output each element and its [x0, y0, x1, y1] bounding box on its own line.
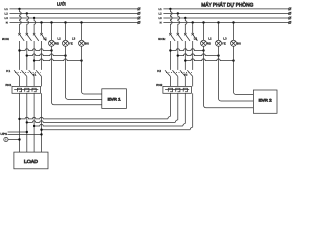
svg-text:RD: RD [207, 41, 211, 45]
wire N drop to MCCB2 [192, 23, 194, 34]
svg-text:N: N [6, 22, 8, 25]
junction dot tie L2 [26, 121, 28, 123]
wire L3 drop to MCCB1 [34, 18, 36, 33]
node label L1 left bus [5, 8, 9, 11]
label L2 lamp left [57, 37, 61, 41]
title MAY PHAT DU PHONG (standby generator) [201, 1, 253, 8]
junction dot L2 tap left [26, 12, 28, 14]
node label N left bus [6, 22, 8, 25]
svg-text:YE: YE [222, 41, 226, 45]
wire L2 drop to MCCB2 [178, 13, 180, 33]
svg-text:L3: L3 [5, 17, 9, 20]
wire tie line N from generator [42, 127, 193, 130]
wire UPS line2 to N feeder [8, 133, 42, 135]
label RD lamp color right [207, 41, 211, 45]
label L3 lamp left [72, 37, 76, 41]
wire load feeder 1 [19, 93, 21, 152]
terminal L3 left bus end [137, 17, 140, 20]
terminal L1 left bus end [137, 7, 140, 10]
label BU lamp color right [237, 41, 241, 45]
wire N bus to lamp3 left [81, 23, 83, 41]
wire N bus to lamp1 right [203, 23, 205, 41]
node label N right bus [160, 22, 162, 25]
load box LOAD [14, 152, 48, 169]
wire K1 pole2 to RN [26, 76, 28, 86]
terminal L3 right bus end [288, 17, 291, 20]
label L2 lamp right [208, 37, 212, 41]
wire bus N left [10, 22, 138, 24]
contactor K1 [6, 69, 41, 77]
wire bus L1 right [163, 8, 288, 10]
wire phase tap L3 left to lamp [34, 59, 81, 61]
wire phase tap L1 left to lamp [20, 49, 52, 51]
junction dot lamp1 right on N bus [202, 21, 204, 23]
junction dot lamp3 left bottom [80, 59, 82, 61]
wire N bus to lamp3 right [233, 23, 235, 41]
svg-text:LOAD: LOAD [24, 159, 39, 164]
junction dot tap L3 left [33, 59, 35, 61]
svg-text:N: N [160, 22, 162, 25]
wire MCCB1 pole3 to K1 [33, 41, 35, 70]
wire load feeder 3 [33, 93, 35, 152]
thermal overload relay RN2 [156, 83, 191, 94]
wire bus L3 left [10, 17, 138, 19]
junction dot tap L3 right [184, 59, 186, 61]
label L3 lamp right [223, 37, 227, 41]
svg-text:K2: K2 [157, 69, 161, 73]
wire generator feeder 3 down [184, 93, 186, 123]
junction dot lamp1 right bottom [202, 49, 204, 51]
svg-text:L2: L2 [208, 37, 212, 41]
thermal overload relay RN1 [5, 83, 40, 94]
svg-text:BU: BU [85, 41, 89, 45]
svg-text:LƯỚI: LƯỚI [57, 2, 66, 7]
wire lamp1 left down [51, 46, 53, 50]
svg-text:EVR 1: EVR 1 [108, 97, 121, 101]
terminal L2 right bus end [288, 12, 291, 15]
junction dot N tap right [192, 21, 194, 23]
wire generator feeder 1 down [169, 93, 171, 116]
svg-text:L1: L1 [43, 37, 47, 41]
junction dot L1 tap right [169, 8, 171, 10]
indicator lamp BU left [79, 40, 85, 46]
meter V [4, 137, 8, 141]
wire N drop to MCCB1 [41, 23, 43, 34]
junction dot meter L1 [18, 138, 20, 140]
wire generator feeder 2 down [177, 93, 179, 120]
junction dot tap L1 left [18, 49, 20, 51]
junction dot UPS L2 [26, 131, 28, 133]
node label L3 left bus [5, 17, 9, 20]
wire tie line L2 from generator [27, 120, 178, 123]
wire N bus to lamp2 right [218, 23, 220, 41]
node label L3 right bus [158, 17, 162, 20]
node label L2 right bus [158, 13, 162, 16]
terminal L2 left bus end [137, 12, 140, 15]
circuit breaker MCCB2 [158, 33, 197, 41]
svg-text:L3: L3 [158, 17, 162, 20]
title LUOI (grid) [57, 2, 66, 7]
wire MCCB1 pole1 to K1 [19, 41, 21, 70]
wire K1 pole1 to RN [19, 76, 21, 86]
wire bus L2 right [163, 12, 288, 14]
junction dot lamp2 right on N bus [217, 21, 219, 23]
svg-text:L1: L1 [158, 8, 162, 11]
label L1 lamp right [194, 37, 198, 41]
wire tie line L3 from generator [34, 124, 185, 127]
wire MCCB2 pole2 to K2 [177, 41, 179, 70]
wire lamp2 left to EVR [66, 56, 102, 100]
voltage relay EVR1 [102, 89, 127, 109]
junction dot UPS N [40, 133, 42, 135]
svg-text:RD: RD [55, 41, 59, 45]
wire meter to L1 feeder [8, 139, 20, 141]
junction dot L3 tap left [33, 17, 35, 19]
wire phase tap L2 left to lamp [27, 54, 66, 56]
indicator lamp YE right [216, 40, 222, 46]
wire N bus to lamp1 left [51, 23, 53, 41]
wire lamp3 left down [81, 46, 83, 60]
indicator lamp RD left [49, 40, 55, 46]
node label L2 left bus [5, 13, 9, 16]
wire phase tap L3 right to lamp [185, 59, 233, 61]
junction dot tap L2 right [177, 54, 179, 56]
indicator lamp BU right [231, 40, 237, 46]
junction dot lamp2 left bottom [64, 54, 66, 56]
wire L2 drop to MCCB1 [27, 13, 29, 33]
wire L1 drop to MCCB2 [170, 9, 172, 33]
junction dot lamp2 right bottom [217, 54, 219, 56]
svg-text:L2: L2 [5, 13, 9, 16]
wire bus L2 left [10, 12, 138, 14]
svg-text:UPS: UPS [0, 132, 7, 136]
wire lamp3 right down [233, 46, 235, 60]
wire lamp1 right down [203, 46, 205, 50]
svg-text:L2: L2 [158, 13, 162, 16]
wire MCCB1 pole4 to K1 [41, 41, 43, 70]
svg-text:L2: L2 [57, 37, 61, 41]
wire bus N right [163, 22, 288, 24]
junction dot lamp1 left on N bus [50, 21, 52, 23]
wire MCCB1 pole2 to K1 [26, 41, 28, 70]
label RD lamp color left [55, 41, 59, 45]
svg-text:L3: L3 [223, 37, 227, 41]
circuit breaker MCCB1 [2, 33, 46, 41]
wire load feeder 4 [41, 93, 43, 152]
junction dot L1 tap left [18, 8, 20, 10]
wire MCCB2 pole1 to K2 [169, 41, 171, 70]
wire phase tap L1 right to lamp [170, 49, 203, 51]
wire K2 pole1 to RN [169, 76, 171, 86]
node label L1 right bus [158, 8, 162, 11]
wire K2 pole4 to RN [192, 76, 194, 86]
terminal L1 right bus end [288, 7, 291, 10]
wire phase tap L2 right to lamp [178, 54, 219, 56]
junction dot lamp1 left bottom [50, 49, 52, 51]
label UPS [0, 132, 7, 136]
voltage relay EVR2 [253, 90, 277, 113]
svg-text:BU: BU [237, 41, 241, 45]
label L1 lamp left [43, 37, 47, 41]
svg-text:L1: L1 [5, 8, 9, 11]
wire L1 drop to MCCB1 [20, 9, 22, 33]
junction dot tie N [40, 129, 42, 131]
wire N bus to lamp2 left [65, 23, 67, 41]
indicator lamp RD right [201, 40, 207, 46]
svg-text:EVR 2: EVR 2 [259, 98, 272, 102]
junction dot lamp3 right on N bus [232, 21, 234, 23]
wire lamp1 right to EVR [204, 51, 254, 108]
wire lamp1 left to EVR [52, 51, 102, 105]
junction dot L3 tap right [184, 17, 186, 19]
junction dot lamp3 right bottom [232, 59, 234, 61]
wire K1 pole4 to RN [41, 76, 43, 86]
wire lamp2 right down [218, 46, 220, 55]
wire lamp3 left to EVR [82, 61, 102, 94]
svg-text:K2: K2 [184, 74, 188, 77]
svg-text:MCCB2: MCCB2 [158, 37, 165, 41]
svg-text:RN2: RN2 [156, 83, 162, 87]
wire bus L3 right [163, 17, 288, 19]
junction dot tap L2 left [26, 54, 28, 56]
junction dot tie L3 [33, 125, 35, 127]
junction dot lamp3 left on N bus [80, 21, 82, 23]
svg-text:L1: L1 [194, 37, 198, 41]
svg-text:MCCB1: MCCB1 [2, 37, 9, 41]
wire K1 pole3 to RN [33, 76, 35, 86]
svg-text:K1: K1 [6, 69, 10, 73]
wire UPS line1 to L2 feeder [8, 131, 27, 133]
junction dot tie L1 [18, 118, 20, 120]
svg-text:MÁY PHÁT DỰ PHÒNG: MÁY PHÁT DỰ PHÒNG [201, 1, 253, 8]
wire lamp2 right to EVR [219, 56, 254, 101]
wire load feeder 2 [26, 93, 28, 152]
wire MCCB2 pole3 to K2 [184, 41, 186, 70]
label YE lamp color left [69, 41, 73, 45]
svg-text:YE: YE [69, 41, 73, 45]
junction dot tap L1 right [169, 49, 171, 51]
contactor K2 [157, 69, 193, 77]
terminal N right bus end [288, 21, 291, 24]
label BU lamp color left [85, 41, 89, 45]
junction dot L2 tap right [177, 12, 179, 14]
wire MCCB2 pole4 to K2 [192, 41, 194, 70]
wire K2 pole3 to RN [184, 76, 186, 86]
wire tie line L1 from generator [20, 116, 171, 119]
junction dot N tap left [40, 21, 42, 23]
wire bus L1 left [10, 8, 138, 10]
wire L3 drop to MCCB2 [185, 18, 187, 33]
svg-text:K1: K1 [33, 74, 37, 77]
wire K2 pole2 to RN [177, 76, 179, 86]
svg-text:RN1: RN1 [5, 83, 11, 87]
indicator lamp YE left [63, 40, 69, 46]
label YE lamp color right [222, 41, 226, 45]
wire generator feeder 4 down [192, 93, 194, 127]
wire lamp2 left down [65, 46, 67, 55]
terminal N left bus end [137, 21, 140, 24]
svg-text:L3: L3 [72, 37, 76, 41]
junction dot lamp2 left on N bus [64, 21, 66, 23]
wire lamp3 right to EVR [234, 61, 254, 95]
